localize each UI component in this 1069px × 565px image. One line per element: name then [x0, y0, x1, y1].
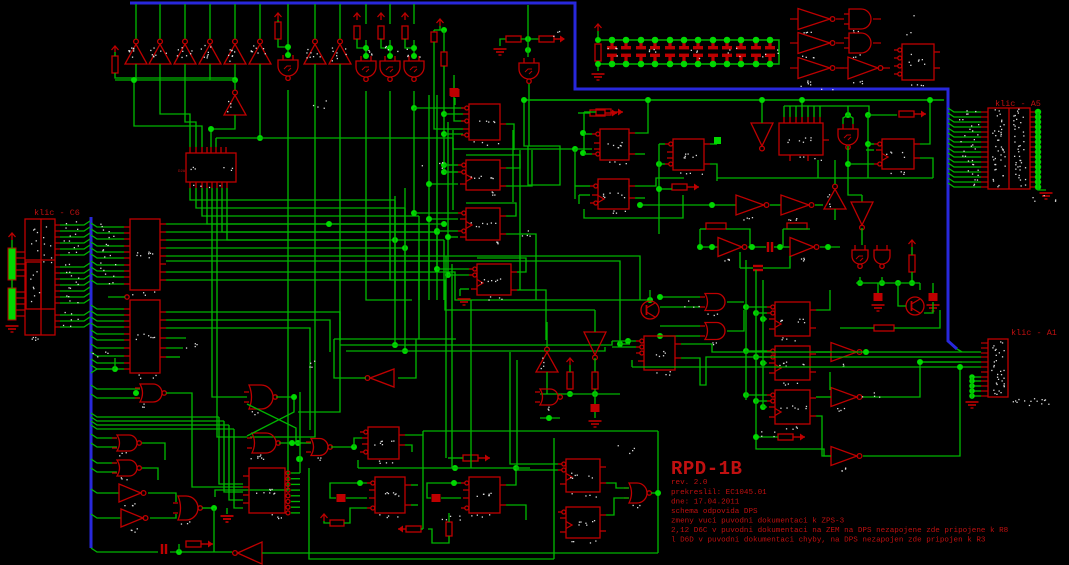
part label — [788, 218, 797, 221]
wire — [848, 115, 853, 124]
junction — [326, 221, 332, 227]
part label — [1018, 145, 1021, 147]
pin stub — [16, 251, 25, 253]
junction — [760, 316, 766, 322]
wire — [881, 277, 883, 283]
wire — [746, 306, 767, 308]
wire — [594, 389, 596, 404]
wire — [202, 507, 214, 509]
bus entry wire — [91, 365, 124, 369]
wire — [659, 143, 665, 145]
part label — [782, 337, 796, 341]
wire — [829, 372, 831, 390]
pin stub — [16, 291, 25, 293]
pin stub — [981, 371, 988, 373]
wire — [229, 425, 243, 500]
junction — [749, 244, 755, 250]
pin stub — [981, 126, 988, 128]
part label — [1015, 169, 1021, 171]
capacitor C14 — [765, 42, 775, 62]
wire — [477, 258, 526, 272]
pin stub — [981, 171, 988, 173]
connector klic-A5 body — [988, 108, 1030, 189]
junction — [392, 342, 398, 348]
junction — [759, 97, 765, 103]
junction — [567, 391, 573, 397]
wire — [782, 229, 784, 247]
wire — [863, 367, 960, 456]
part label — [102, 249, 104, 251]
pin stub — [1030, 151, 1036, 153]
junction — [451, 480, 457, 486]
wire — [583, 112, 585, 154]
wire — [856, 282, 920, 284]
part label — [31, 229, 38, 252]
bus entry wire — [91, 468, 117, 472]
wire — [756, 400, 767, 402]
resistor-net arrow — [672, 184, 699, 191]
wire — [506, 234, 536, 300]
pin stub — [55, 314, 60, 316]
wire — [411, 484, 418, 486]
part label — [761, 431, 775, 437]
nand gate U16 — [112, 460, 141, 476]
part label — [608, 48, 618, 57]
part label — [65, 312, 73, 315]
part label — [649, 49, 657, 53]
part label — [804, 32, 812, 34]
part label — [906, 15, 914, 55]
wire — [619, 320, 621, 344]
wire — [631, 360, 633, 367]
wire — [142, 468, 158, 480]
part label — [105, 274, 115, 277]
wire — [528, 84, 530, 146]
resistor-net arrow — [899, 111, 926, 118]
pin stub — [981, 176, 988, 178]
part label — [827, 194, 831, 207]
part label — [1013, 398, 1046, 402]
part label — [992, 131, 1006, 167]
bus entry wire — [60, 227, 90, 231]
pin stub — [1030, 181, 1036, 183]
wire — [578, 112, 590, 114]
part label — [656, 371, 671, 376]
wire — [847, 106, 849, 115]
wire — [217, 188, 247, 437]
wire — [932, 283, 934, 288]
bus entry wire — [60, 251, 90, 255]
wire — [584, 195, 683, 218]
part label — [251, 456, 265, 460]
wire — [291, 501, 300, 503]
part label — [762, 49, 779, 57]
and gate U4 — [844, 33, 871, 53]
part label — [968, 160, 973, 162]
wire — [437, 230, 458, 232]
bus entry wire — [91, 248, 124, 252]
capacitor C17 — [874, 293, 883, 301]
part label — [541, 358, 545, 370]
resistor R5 — [402, 26, 408, 39]
wire — [219, 417, 243, 484]
part label — [802, 56, 815, 59]
part label — [553, 31, 560, 37]
transistor Q1 — [906, 297, 924, 315]
pin stub — [55, 302, 60, 304]
wire — [227, 188, 444, 240]
pin stub — [1030, 126, 1036, 128]
wire — [739, 252, 741, 268]
part label — [1020, 179, 1026, 181]
flip-flop FF12 — [360, 427, 405, 459]
wire — [339, 4, 341, 39]
wire — [816, 351, 831, 353]
part label — [201, 48, 209, 58]
wire — [681, 343, 712, 345]
wire — [506, 468, 516, 485]
part label — [230, 49, 236, 52]
wire — [215, 138, 217, 147]
bus entry wire — [60, 221, 90, 225]
resistor R17 — [330, 520, 344, 526]
nand gate U14 — [135, 384, 166, 402]
wire — [413, 108, 415, 213]
capacitor C9 — [693, 42, 703, 62]
part label — [969, 129, 973, 132]
wire — [834, 209, 836, 220]
inverter gate D16 — [781, 195, 814, 215]
net stub — [714, 137, 721, 144]
part label — [1002, 175, 1003, 177]
part label — [886, 152, 905, 159]
pin stub — [16, 309, 25, 311]
wire — [11, 280, 13, 288]
wire — [447, 122, 449, 275]
capacitor C2 — [451, 89, 460, 97]
bus entry wire — [948, 138, 981, 142]
junction — [402, 245, 408, 251]
wire — [166, 337, 186, 339]
wire — [755, 270, 757, 401]
junction — [656, 161, 662, 167]
power VCC arrow — [321, 514, 328, 521]
pad — [1035, 169, 1041, 175]
svg-text:schema odpovida DPS: schema odpovida DPS — [671, 508, 758, 516]
part label — [256, 489, 275, 495]
wire — [389, 4, 391, 24]
pin stub — [1030, 111, 1036, 113]
wire — [215, 90, 288, 497]
wire — [877, 283, 879, 293]
flip-flop FF7 — [665, 139, 710, 170]
wire — [807, 106, 809, 117]
bus entry wire — [948, 113, 981, 117]
pad — [969, 378, 975, 384]
wire — [135, 64, 137, 80]
part label — [684, 153, 697, 158]
wire — [443, 66, 445, 172]
pin stub — [981, 131, 988, 133]
wire — [640, 204, 736, 206]
junction — [657, 294, 663, 300]
wire — [597, 61, 599, 71]
junction — [546, 415, 552, 421]
junction — [709, 202, 715, 208]
junction — [865, 112, 871, 118]
pad — [1035, 129, 1041, 135]
part label — [30, 271, 40, 302]
resistor R9 — [539, 36, 554, 42]
wire — [524, 99, 944, 101]
part label — [909, 59, 926, 66]
pin stub — [1030, 176, 1036, 178]
wire — [745, 260, 747, 400]
junction — [211, 505, 217, 511]
junction — [402, 348, 408, 354]
pad — [1035, 109, 1041, 115]
bus entry wire — [91, 229, 124, 233]
wire — [575, 148, 592, 150]
pad — [1035, 144, 1041, 150]
pin stub — [836, 42, 844, 44]
pin stub — [55, 278, 60, 280]
part label — [106, 244, 109, 246]
wire — [259, 4, 261, 39]
resistor R8 — [506, 36, 521, 42]
wire — [594, 358, 596, 372]
bus entry wire — [91, 280, 124, 284]
nand gate U9 — [838, 124, 858, 149]
wire — [848, 163, 874, 165]
wire — [540, 393, 620, 395]
part label — [779, 362, 804, 367]
wire — [115, 79, 235, 81]
capacitor C18 — [929, 293, 938, 301]
wire — [418, 216, 420, 300]
wire — [11, 240, 13, 248]
part label — [251, 48, 257, 53]
part label — [368, 50, 372, 56]
bus entry wire — [91, 425, 234, 429]
pin stub — [981, 116, 988, 118]
junction — [441, 169, 447, 175]
pin stub — [981, 361, 988, 363]
part label — [182, 50, 193, 56]
bus entry wire — [60, 245, 90, 249]
part label — [374, 440, 394, 445]
bus entry wire — [91, 305, 124, 309]
wire — [423, 430, 658, 432]
junction — [617, 341, 623, 347]
junction — [426, 216, 432, 222]
wire — [234, 4, 236, 39]
ic D2A — [186, 147, 236, 188]
wire — [414, 212, 458, 214]
pin stub — [1030, 166, 1036, 168]
pin bubble — [286, 482, 290, 486]
pin bubble — [286, 494, 290, 498]
part label — [548, 407, 550, 411]
capacitor C4 — [621, 42, 631, 62]
wire — [212, 188, 247, 397]
wire — [209, 4, 211, 39]
wire — [848, 146, 862, 195]
part label — [228, 55, 233, 62]
wire — [291, 472, 300, 474]
bus entry wire — [948, 133, 981, 137]
wire — [413, 91, 415, 108]
part label — [306, 52, 314, 58]
wire — [868, 114, 897, 116]
wire — [441, 497, 461, 499]
wire — [346, 497, 367, 499]
pad — [1035, 124, 1041, 130]
inverter gate D19 — [718, 238, 747, 257]
pin stub — [16, 275, 25, 277]
wire — [166, 312, 340, 341]
part label — [66, 295, 69, 297]
wire — [584, 111, 596, 113]
wire — [207, 188, 429, 224]
capacitor C12 — [736, 42, 746, 62]
nand gate U18B — [247, 433, 280, 453]
wire — [394, 200, 396, 300]
bus entry wire — [91, 330, 124, 334]
part label — [801, 258, 805, 262]
part label — [309, 361, 315, 368]
wire — [658, 144, 660, 234]
junction — [656, 186, 662, 192]
wire — [510, 352, 558, 464]
wire — [763, 406, 767, 408]
wire — [801, 100, 803, 106]
resistor R4 — [378, 26, 384, 39]
wire — [820, 106, 869, 115]
part label — [259, 454, 262, 458]
ic IC2 — [124, 300, 166, 373]
pad — [969, 383, 975, 389]
pin stub — [981, 121, 988, 123]
part label — [121, 477, 128, 480]
junction — [521, 97, 527, 103]
pin stub — [981, 342, 988, 344]
svg-text:D2A: D2A — [178, 170, 186, 174]
part label — [963, 148, 975, 152]
junction — [434, 266, 440, 272]
capacitor C7 — [665, 42, 675, 62]
bus entry wire — [948, 148, 981, 152]
wire — [216, 137, 453, 139]
part label — [996, 355, 1004, 358]
wire — [166, 247, 405, 249]
bus entry wire — [948, 158, 981, 162]
wire — [340, 341, 612, 345]
pin stub — [981, 347, 988, 349]
wire — [569, 365, 571, 372]
wire — [453, 75, 455, 88]
wire — [365, 40, 367, 56]
pin stub — [981, 356, 988, 358]
junction — [697, 244, 703, 250]
ground — [221, 516, 234, 522]
pin stub — [840, 67, 848, 69]
wire — [211, 115, 235, 147]
part label — [407, 49, 421, 58]
junction — [753, 310, 759, 316]
wire — [170, 551, 232, 553]
junction — [595, 37, 601, 43]
flip-flop FF4 — [469, 264, 517, 295]
pin stub — [16, 297, 25, 299]
pin stub — [55, 326, 60, 328]
ground — [927, 305, 940, 311]
part label — [571, 540, 596, 543]
wire — [414, 107, 463, 109]
junction — [753, 354, 759, 360]
wire — [443, 240, 445, 300]
pin stub — [873, 18, 881, 20]
wire — [659, 163, 665, 165]
wire — [700, 357, 981, 385]
part label — [992, 154, 1002, 157]
part label — [522, 230, 531, 237]
wire — [276, 396, 294, 398]
wire — [226, 508, 228, 514]
part label — [336, 48, 347, 56]
resistor R13 — [909, 255, 915, 272]
wire — [651, 492, 658, 494]
resistor R12 — [787, 223, 807, 229]
bus entry wire — [91, 489, 119, 493]
wire — [746, 350, 767, 352]
part label — [993, 179, 995, 182]
resistor R6 — [431, 32, 437, 42]
wire — [166, 231, 437, 233]
part label — [780, 405, 807, 409]
wire — [574, 149, 576, 199]
wire — [134, 80, 202, 147]
part label — [119, 452, 127, 456]
wire — [357, 39, 366, 48]
resistor R15 — [567, 372, 573, 389]
junction — [392, 237, 398, 243]
part label — [109, 236, 115, 239]
pin stub — [55, 272, 60, 274]
wire — [209, 64, 211, 80]
bus entry wire — [948, 128, 981, 132]
wire — [389, 40, 391, 56]
part label — [204, 45, 212, 58]
part label — [995, 350, 1000, 354]
bus entry wire — [60, 317, 90, 321]
wire — [527, 5, 529, 57]
part label — [100, 224, 103, 228]
part label — [996, 384, 1004, 387]
and gate U12B — [700, 323, 725, 340]
part label — [385, 46, 399, 52]
junction — [441, 27, 447, 33]
wire — [540, 417, 560, 419]
wire — [783, 106, 785, 117]
wire — [795, 106, 797, 117]
pin stub — [882, 67, 890, 69]
wire — [331, 446, 354, 448]
wire — [413, 4, 415, 24]
pin stub — [981, 156, 988, 158]
pin stub — [790, 18, 798, 20]
wire — [448, 274, 469, 276]
